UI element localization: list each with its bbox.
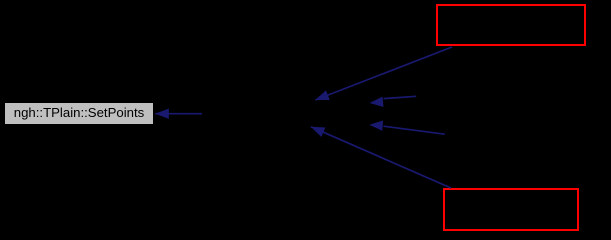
edge A: top red caller -> hidden direct caller — [315, 47, 452, 100]
edge C: hidden caller -> hidden node (line) — [384, 96, 417, 98]
edge D: hidden caller -> hidden node (line) — [384, 126, 445, 134]
edge B: bottom red caller -> hidden direct caller — [311, 127, 451, 188]
edge D arrowhead — [369, 121, 383, 131]
caller node bottom (truncated, red border) — [443, 188, 579, 231]
edge E: hidden direct caller -> ngh::TPlain::SetPoints — [155, 113, 202, 115]
edge C arrowhead — [370, 97, 384, 107]
caller node top (truncated, red border) — [436, 4, 586, 46]
node ngh::TPlain::SetPoints (current function, gray) — [4, 102, 154, 125]
